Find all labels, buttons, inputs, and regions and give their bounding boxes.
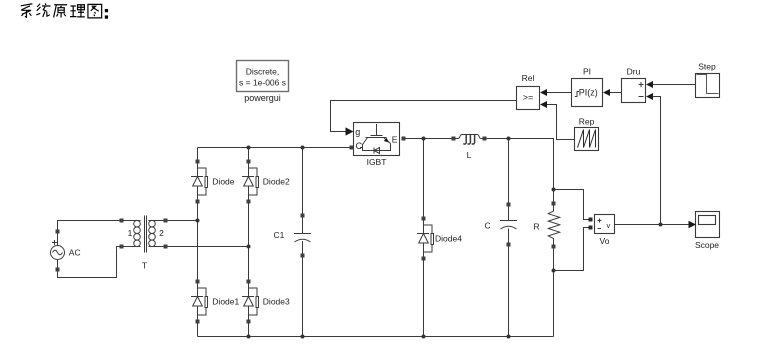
svg-text:g: g: [355, 127, 360, 137]
title text 系统原理图: drawn strokes: [21, 3, 108, 18]
wire Vo output to Scope: [615, 224, 689, 226]
svg-text:AC: AC: [69, 248, 81, 258]
wire junction drop to Diode4: [423, 139, 425, 217]
svg-text:C1: C1: [274, 230, 285, 240]
junction node dots: [196, 137, 663, 339]
Step source block: [696, 74, 720, 98]
Rep repeating sequence block: [575, 128, 599, 151]
transformer T primary winding: [124, 221, 141, 247]
IGBT E port: [402, 137, 406, 141]
svg-text:Vo: Vo: [600, 236, 610, 246]
capacitor C leads: [508, 207, 510, 243]
wire Diode4 bottom to bus: [423, 261, 425, 337]
svg-text:L: L: [467, 150, 472, 160]
PI controller block: [572, 79, 603, 107]
wire R bottom to bus: [553, 249, 555, 337]
PI input arrowhead: [603, 89, 610, 96]
svg-text:1: 1: [128, 228, 133, 238]
wire AC top to transformer winding 1 top: [58, 221, 122, 230]
AC port bottom: [56, 268, 60, 272]
svg-text:Discrete,: Discrete,: [246, 67, 280, 77]
top bus wire to IGBT C port: [198, 147, 350, 149]
diode Diode1: [191, 280, 208, 324]
transformer T port squares: [120, 219, 124, 223]
inductor L ports: [452, 137, 456, 141]
inductor L coil: [458, 135, 480, 139]
wire C bottom to bus: [508, 247, 510, 337]
capacitor C ports: [507, 203, 511, 207]
svg-text:Step: Step: [698, 62, 716, 72]
svg-text:Diode3: Diode3: [263, 297, 290, 307]
svg-text:C: C: [485, 221, 491, 231]
svg-text:Diode2: Diode2: [263, 177, 290, 187]
capacitor C plates: [500, 221, 517, 230]
capacitor C1 ports: [301, 214, 305, 218]
wire transformer secondary bottom to bridge right column: [168, 246, 249, 248]
svg-text:C: C: [356, 141, 363, 151]
svg-text:Diode1: Diode1: [212, 297, 239, 307]
AC source leads: [57, 234, 59, 268]
svg-text:s = 1e-006 s: s = 1e-006 s: [239, 78, 286, 88]
transformer T core: [145, 216, 147, 253]
wire Rel output to IGBT gate input: [331, 101, 517, 132]
svg-text:2: 2: [159, 228, 164, 238]
resistor R ports: [552, 202, 556, 206]
wire PI output to Rel input 1: [547, 92, 572, 94]
wire AC bottom to transformer winding 1 bottom: [58, 247, 122, 278]
capacitor C1 plates: [294, 234, 311, 243]
svg-text:>=: >=: [523, 92, 534, 102]
svg-text:v: v: [607, 221, 611, 230]
AC plus sign: [52, 240, 57, 245]
Scope input arrowhead: [689, 221, 697, 229]
svg-text:R: R: [534, 222, 540, 232]
wire Diode3 bottom to bus: [248, 324, 250, 337]
resistor R zigzag: [548, 206, 559, 245]
wire bus drop to C1: [302, 148, 304, 214]
wire bridge left column middle: [197, 204, 199, 280]
svg-text:Rep: Rep: [579, 117, 595, 127]
svg-text:PI(z): PI(z): [579, 88, 598, 98]
svg-text:Scope: Scope: [695, 240, 719, 250]
bottom bus wire: [198, 336, 554, 338]
diode Diode4: [417, 217, 434, 261]
IGBT block: [354, 123, 400, 156]
svg-text:Diode4: Diode4: [435, 234, 462, 244]
diode Diode3: [242, 280, 259, 324]
wire bus drop to Diode: [197, 148, 199, 160]
svg-text:Diode: Diode: [212, 177, 234, 187]
Vo voltage measurement block: [595, 215, 615, 234]
svg-text:Dru: Dru: [627, 67, 641, 77]
Rel input arrowheads: [540, 89, 547, 96]
powergui block: [237, 61, 289, 92]
wire junction drop to capacitor C: [508, 139, 510, 203]
wire transformer secondary top to bridge left column: [168, 220, 198, 222]
wire R top branch to Vo plus input: [554, 190, 589, 220]
Scope block: [696, 212, 720, 238]
svg-text:PI: PI: [583, 67, 591, 77]
Dru input arrowheads: [646, 81, 653, 88]
svg-text:T: T: [142, 261, 147, 271]
wire Dru minus input down to Vo output wire: [653, 97, 661, 225]
AC source circle: [51, 246, 65, 260]
IGBT emitter arrowhead: [384, 138, 389, 143]
wire Diode1 bottom to bus: [197, 324, 199, 337]
capacitor C1 leads: [302, 218, 304, 254]
svg-text:Rel: Rel: [522, 73, 535, 83]
wire bus drop to Diode2: [248, 148, 250, 160]
diode Diode2: [242, 160, 259, 204]
transformer T secondary winding: [149, 221, 164, 247]
wire IGBT E output through L to R corner: [406, 139, 554, 202]
diode Diode: [191, 160, 208, 204]
wire Rep output to Rel input 2: [547, 105, 575, 140]
svg-text:E: E: [392, 134, 398, 144]
IGBT gate input arrowhead: [346, 127, 354, 135]
svg-text:IGBT: IGBT: [367, 157, 387, 167]
wire bridge right column middle: [248, 204, 250, 280]
wire R bottom branch to Vo minus input: [554, 228, 589, 271]
IGBT C port: [350, 146, 354, 150]
wire Step output to Dru plus input: [653, 84, 696, 86]
svg-text:powergui: powergui: [244, 93, 281, 103]
wire Dru output to PI input: [610, 92, 622, 94]
wire C1 bottom to bus: [302, 258, 304, 337]
AC port top: [56, 230, 60, 234]
Dru sum block: [622, 79, 646, 103]
Vo input ports: [589, 218, 593, 222]
Rel relational operator block: [517, 87, 540, 110]
